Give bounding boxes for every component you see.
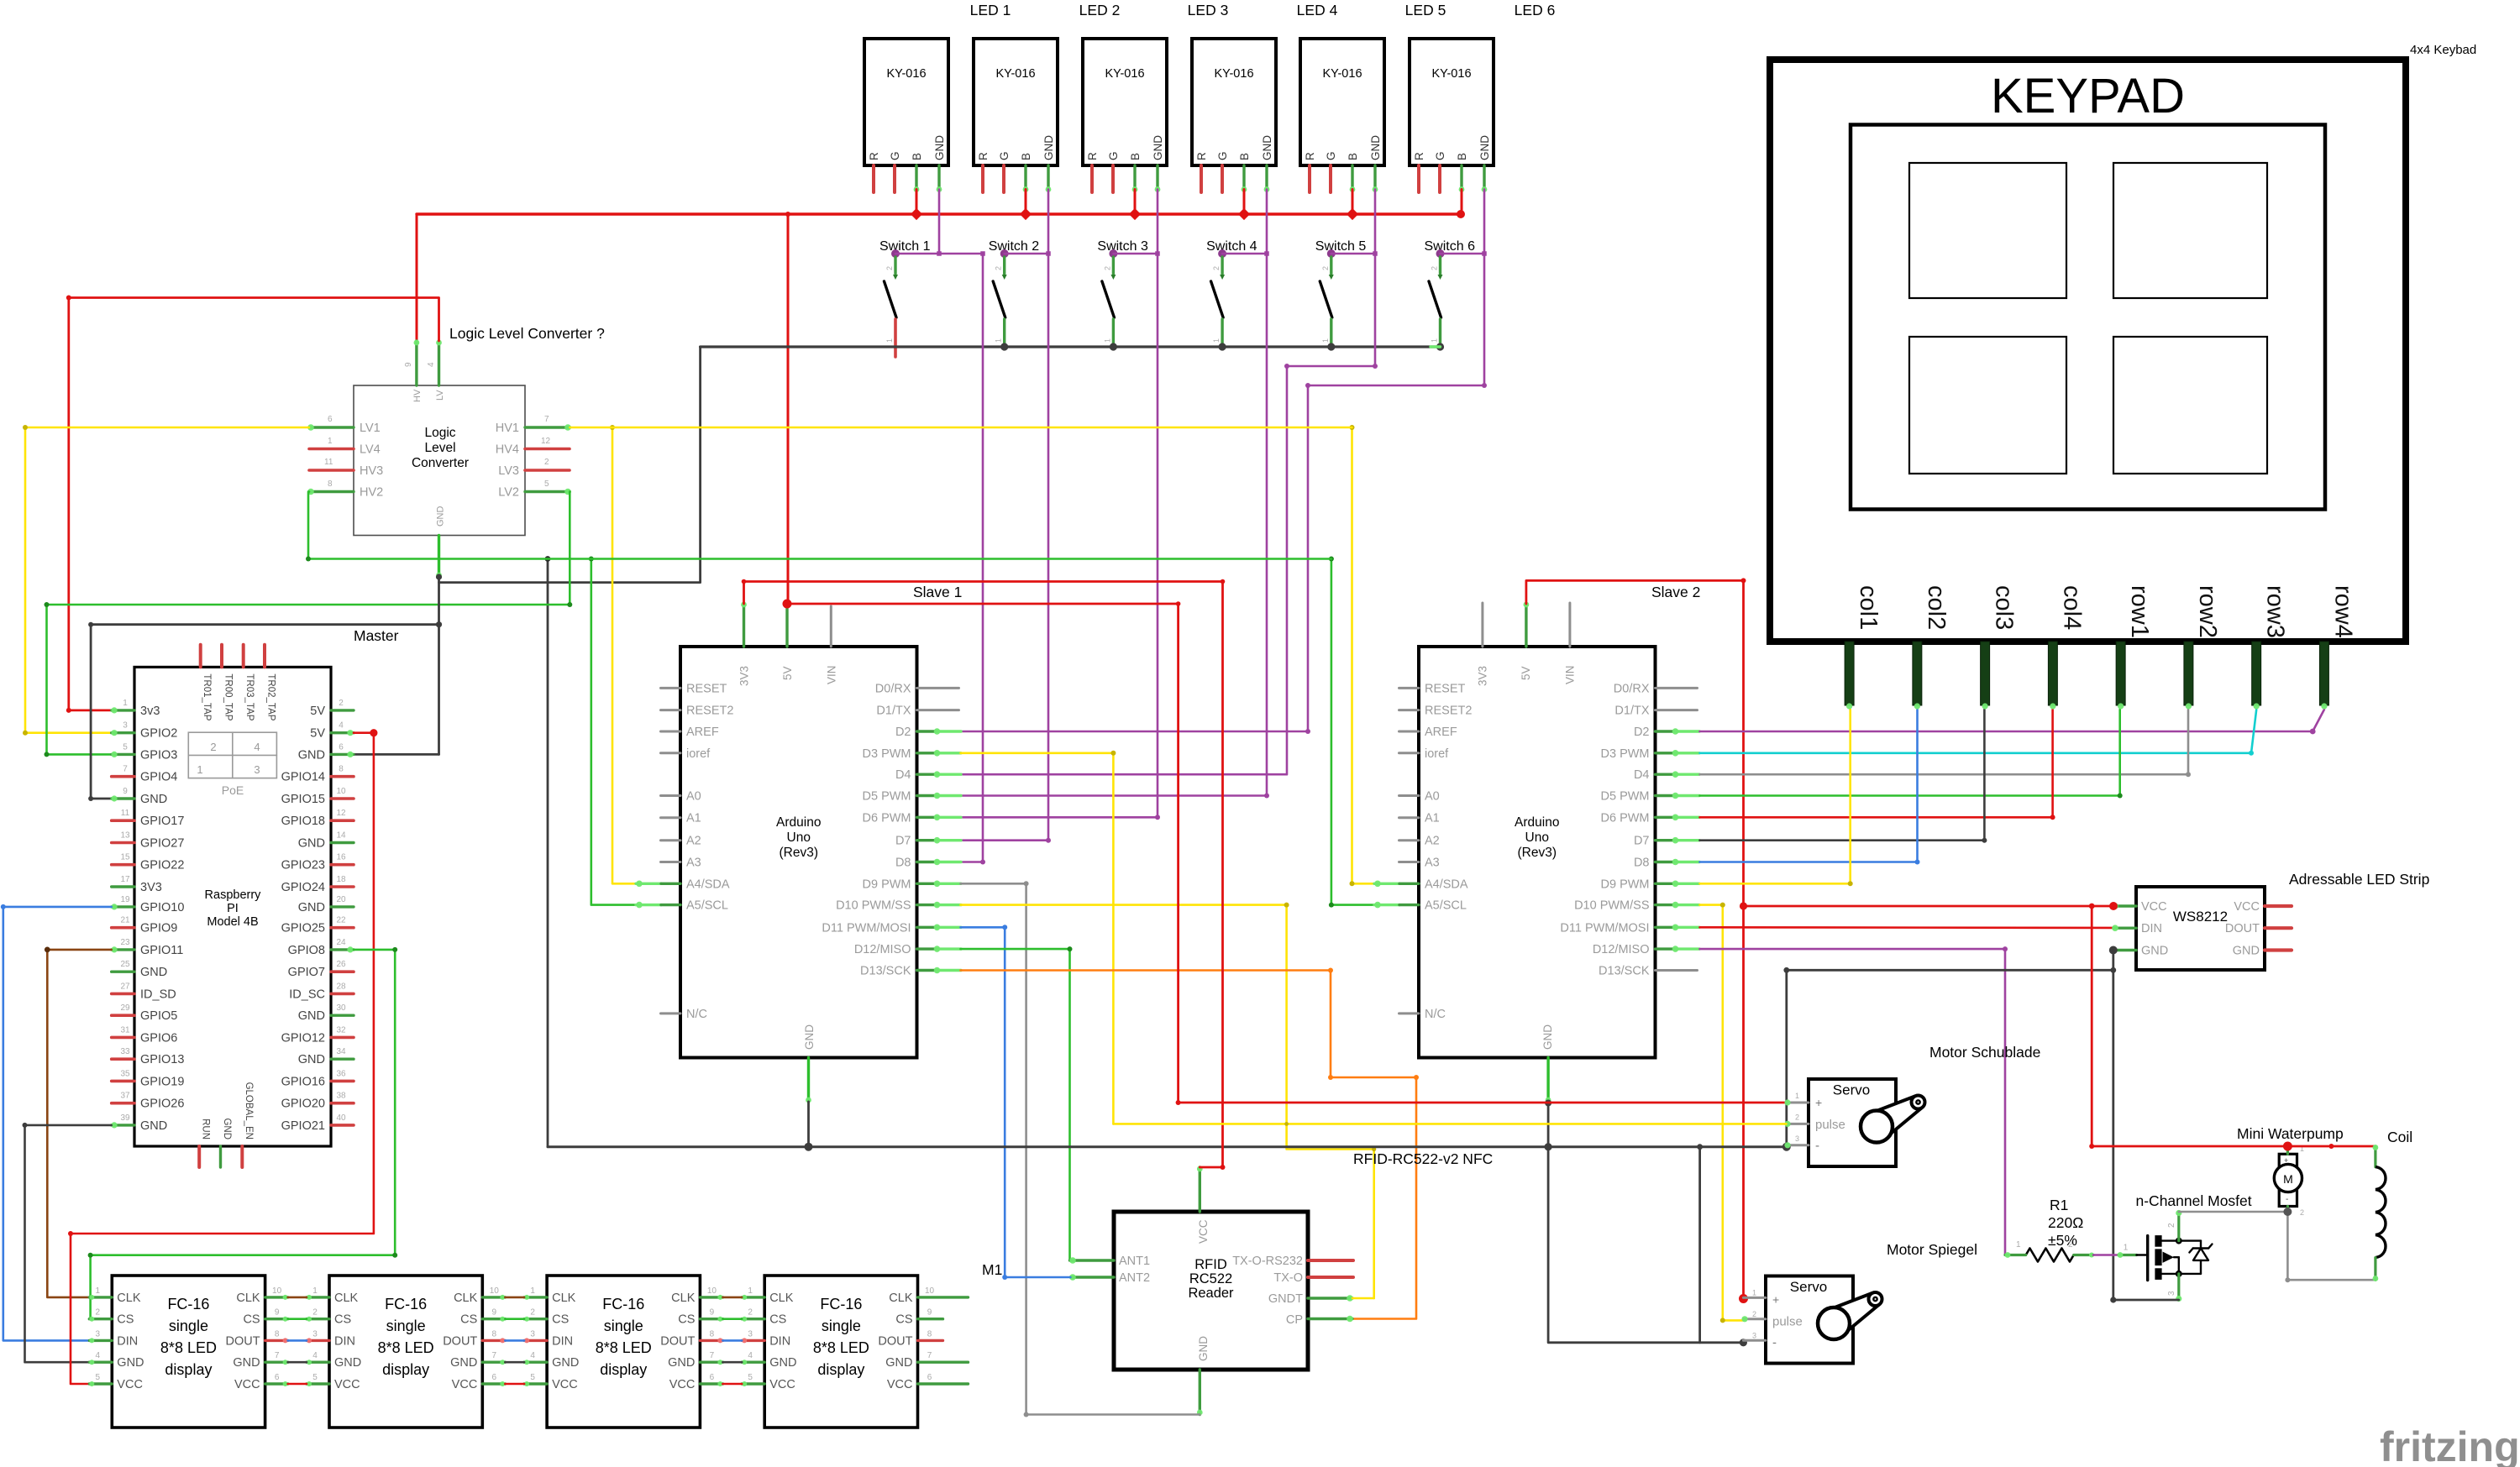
svg-text:GPIO19: GPIO19	[140, 1075, 184, 1088]
svg-text:GPIO16: GPIO16	[281, 1075, 325, 1088]
wire gray WS8212 GND net	[1782, 951, 2116, 1301]
svg-text:GND: GND	[140, 966, 167, 979]
svg-text:DIN: DIN	[334, 1334, 355, 1348]
svg-text:VCC: VCC	[334, 1378, 360, 1391]
svg-text:GND: GND	[1478, 135, 1491, 160]
svg-text:2: 2	[1795, 1113, 1799, 1121]
svg-text:1: 1	[1431, 338, 1439, 343]
LLC HV2 leg	[307, 489, 354, 495]
svg-text:GND: GND	[1152, 135, 1164, 160]
svg-text:GND: GND	[1197, 1336, 1210, 1361]
svg-text:8*8 LED: 8*8 LED	[596, 1339, 652, 1356]
svg-text:pulse: pulse	[1772, 1315, 1803, 1329]
svg-text:CS: CS	[117, 1313, 134, 1327]
svg-text:DIN: DIN	[552, 1334, 573, 1348]
svg-text:3: 3	[254, 763, 260, 776]
svg-text:LED 5: LED 5	[1405, 2, 1446, 18]
svg-text:col1: col1	[1855, 585, 1882, 630]
svg-text:R: R	[1195, 152, 1208, 160]
svg-text:20: 20	[336, 895, 346, 904]
switch S1	[885, 249, 900, 357]
svg-text:D13/SCK: D13/SCK	[1599, 965, 1650, 978]
svg-text:B: B	[911, 153, 923, 160]
switch S6	[1429, 249, 1445, 347]
svg-text:TR01_TAP: TR01_TAP	[202, 673, 212, 720]
RFID RC522 reader U4	[1114, 1212, 1308, 1370]
svg-text:3: 3	[1795, 1134, 1799, 1143]
wire Slave2 D2 purple to row4	[1700, 710, 2324, 734]
Slave2 right legs	[1656, 728, 1700, 970]
Switch 3 label	[1097, 239, 1148, 254]
RFID ANT1 leg	[1069, 1257, 1114, 1264]
svg-text:ioref: ioref	[686, 747, 711, 761]
svg-text:D2: D2	[895, 726, 911, 739]
svg-text:GND: GND	[117, 1356, 144, 1370]
svg-text:4: 4	[339, 721, 344, 731]
Motor Spiegel label	[1887, 1241, 1977, 1258]
wire net5 to Slave1 D4	[961, 190, 1378, 775]
wires between M1.3 and M1.4	[722, 1297, 742, 1384]
servo2 legs	[1741, 1297, 1766, 1340]
LED3 label	[1188, 2, 1229, 18]
svg-text:6: 6	[339, 742, 344, 752]
wire Slave2 D3 cyan to row3	[1700, 710, 2257, 756]
wire red bus to Slave1 5V rail	[787, 214, 790, 604]
servo M2 Motor Schublade	[1795, 1079, 1925, 1166]
svg-text:GND: GND	[1042, 135, 1055, 160]
svg-text:GND: GND	[933, 135, 946, 160]
LED1 label	[970, 2, 1011, 18]
LLC LV3 stub	[525, 469, 570, 472]
svg-text:D7: D7	[895, 835, 911, 848]
svg-text:CS: CS	[460, 1313, 477, 1327]
svg-text:8: 8	[339, 765, 344, 774]
svg-text:(Rev3): (Rev3)	[1517, 846, 1557, 860]
svg-text:1: 1	[312, 1286, 318, 1296]
M1.4 right legs	[918, 1297, 969, 1384]
svg-text:pulse: pulse	[1815, 1118, 1845, 1132]
svg-text:Switch 1: Switch 1	[879, 239, 931, 254]
Mini Waterpump label	[2237, 1125, 2344, 1142]
svg-text:HV: HV	[412, 389, 423, 402]
inductor Coil	[2373, 1145, 2386, 1281]
svg-text:single: single	[169, 1318, 208, 1334]
svg-text:RFID: RFID	[1194, 1257, 1227, 1272]
svg-text:1: 1	[2016, 1240, 2021, 1250]
svg-text:VCC: VCC	[669, 1378, 696, 1391]
svg-text:col4: col4	[2058, 585, 2085, 630]
svg-text:DOUT: DOUT	[2225, 922, 2260, 935]
wire Slave2 D12 purple to R1	[1700, 946, 2008, 1255]
M1.2 right legs	[482, 1295, 505, 1386]
svg-text:GND: GND	[450, 1356, 477, 1370]
keypad pin labels	[1855, 585, 2356, 638]
svg-text:GPIO25: GPIO25	[281, 922, 325, 935]
Switch 5 label	[1315, 239, 1367, 254]
wire Slave2 D7 dark to col3	[1700, 710, 1987, 843]
svg-text:1: 1	[1212, 338, 1221, 343]
svg-text:LV2: LV2	[498, 486, 519, 500]
svg-text:RESET: RESET	[686, 682, 727, 695]
U2 Slave1 D0 D1 stubs	[917, 688, 959, 710]
svg-text:4: 4	[530, 1351, 535, 1360]
svg-text:GND: GND	[1261, 135, 1273, 160]
svg-text:GND: GND	[298, 1009, 325, 1023]
wire LLC LV1 yellow to Pi GPIO2	[23, 425, 309, 736]
svg-text:7: 7	[544, 415, 549, 424]
svg-text:display: display	[382, 1361, 429, 1378]
Slave2 A4 leg	[1374, 881, 1419, 888]
wire Slave2 D8 blue to col2	[1700, 710, 1920, 865]
KY-016 LED module LED5	[1300, 39, 1384, 165]
svg-text:G: G	[998, 151, 1011, 160]
svg-text:3: 3	[123, 721, 128, 731]
LED5 label	[1405, 2, 1446, 18]
Pi bottom stubs	[199, 1146, 242, 1167]
svg-text:8: 8	[328, 479, 333, 489]
svg-text:2: 2	[544, 458, 549, 467]
svg-text:Level: Level	[424, 441, 455, 455]
svg-text:Arduino: Arduino	[1515, 815, 1559, 830]
svg-text:RC522: RC522	[1189, 1271, 1232, 1286]
svg-text:Adressable LED Strip: Adressable LED Strip	[2289, 871, 2429, 888]
svg-text:D13/SCK: D13/SCK	[860, 965, 911, 978]
svg-text:single: single	[604, 1318, 643, 1334]
svg-text:A1: A1	[686, 812, 701, 825]
4x4 keypad	[1770, 60, 2406, 642]
svg-text:2: 2	[2167, 1223, 2176, 1228]
svg-text:3: 3	[312, 1329, 318, 1339]
svg-text:VCC: VCC	[552, 1378, 578, 1391]
FC-16 LED matrix module M1.3	[530, 1276, 717, 1428]
Slave2 5V pin up	[1524, 602, 1530, 647]
svg-text:HV1: HV1	[496, 422, 519, 435]
svg-text:3V3: 3V3	[1477, 666, 1489, 686]
pump pin numbers	[2300, 1145, 2304, 1217]
svg-text:row2: row2	[2194, 585, 2221, 638]
wire net2 to Slave1 D7	[961, 190, 1052, 843]
U3 Slave2 D0 D1 stubs	[1656, 688, 1698, 710]
svg-text:D10 PWM/SS: D10 PWM/SS	[836, 899, 911, 913]
LED6 label	[1515, 2, 1556, 18]
svg-text:GPIO3: GPIO3	[140, 748, 177, 762]
svg-text:Slave 1: Slave 1	[913, 584, 962, 600]
wire Pi GPIO10 blue to FC16 DIN	[1, 904, 112, 1341]
svg-text:GND: GND	[2141, 945, 2168, 958]
wire RFID GNDT yellow tail	[1352, 1297, 1374, 1300]
mosfet source leg down	[2176, 1274, 2181, 1302]
Pi pin legs	[112, 710, 354, 1125]
svg-text:GPIO18: GPIO18	[281, 815, 325, 828]
Switch 6 label	[1425, 239, 1476, 254]
mosfet pin numbers	[2124, 1223, 2176, 1296]
wire ground bus riser to LLC	[545, 556, 551, 1147]
svg-text:5: 5	[123, 742, 128, 752]
svg-text:Uno: Uno	[1525, 830, 1549, 845]
LLC LV2 leg	[525, 489, 571, 495]
svg-text:3V3: 3V3	[738, 666, 751, 686]
svg-text:N/C: N/C	[686, 1008, 707, 1021]
wire LLC LV red to Pi 3v3	[66, 296, 439, 713]
LED4 label	[1297, 2, 1338, 18]
svg-text:M: M	[2283, 1172, 2293, 1186]
svg-text:A4/SDA: A4/SDA	[686, 878, 730, 891]
svg-text:ID_SC: ID_SC	[289, 988, 325, 1001]
svg-text:D11 PWM/MOSI: D11 PWM/MOSI	[1560, 921, 1649, 935]
LLC LV1 leg	[307, 424, 354, 431]
svg-text:G: G	[1434, 151, 1446, 160]
svg-text:R: R	[868, 152, 880, 160]
svg-text:GND: GND	[140, 793, 167, 806]
svg-text:Motor Spiegel: Motor Spiegel	[1887, 1241, 1977, 1258]
svg-text:TR03_TAP: TR03_TAP	[244, 673, 255, 720]
fritzing watermark	[2380, 1423, 2520, 1467]
M1.3 right legs	[700, 1295, 722, 1386]
svg-text:GPIO24: GPIO24	[281, 881, 325, 894]
svg-text:5: 5	[544, 479, 549, 489]
svg-text:D6 PWM: D6 PWM	[1601, 811, 1650, 825]
svg-text:A0: A0	[686, 790, 701, 804]
svg-text:2: 2	[210, 741, 216, 753]
wire Pi 5V red to FC16 VCC	[68, 729, 378, 1384]
svg-text:VCC: VCC	[234, 1378, 260, 1391]
svg-text:CS: CS	[895, 1313, 912, 1327]
svg-text:GPIO22: GPIO22	[140, 859, 184, 872]
svg-text:2: 2	[1321, 266, 1330, 270]
svg-text:32: 32	[336, 1025, 346, 1035]
svg-text:5V: 5V	[310, 705, 325, 718]
RFID GNDT leg	[1308, 1295, 1353, 1302]
WS8212 right stubs	[2265, 906, 2292, 951]
Slave1 GND pin down	[806, 1058, 811, 1103]
svg-text:VCC: VCC	[2141, 900, 2167, 914]
mosfet gate leg	[2118, 1252, 2137, 1258]
svg-text:6: 6	[328, 415, 333, 424]
LED6 pin B wire to 5V bus	[1459, 165, 1465, 214]
svg-text:5: 5	[530, 1373, 535, 1382]
svg-text:9: 9	[275, 1308, 280, 1318]
svg-text:4: 4	[312, 1351, 318, 1360]
svg-text:11: 11	[121, 809, 130, 818]
svg-text:9: 9	[927, 1308, 932, 1318]
svg-text:G: G	[1216, 151, 1229, 160]
pump legs	[2286, 1146, 2289, 1212]
svg-text:DOUT: DOUT	[660, 1334, 695, 1348]
svg-text:B: B	[1347, 153, 1359, 160]
KY-016 LED module LED3	[1083, 39, 1167, 165]
svg-text:38: 38	[336, 1092, 346, 1101]
svg-text:FC-16: FC-16	[602, 1296, 644, 1312]
svg-text:D0/RX: D0/RX	[1614, 682, 1650, 695]
svg-text:8*8 LED: 8*8 LED	[813, 1339, 869, 1356]
Pi terminal tips	[111, 707, 353, 1128]
svg-text:4: 4	[96, 1351, 101, 1360]
wire Slave2 5V red rail	[1526, 578, 1748, 1303]
LED1 pin GND	[937, 165, 942, 192]
svg-text:TX-O: TX-O	[1273, 1271, 1303, 1285]
svg-text:Motor Schublade: Motor Schublade	[1929, 1044, 2040, 1061]
svg-text:GND: GND	[668, 1356, 695, 1370]
svg-text:11: 11	[324, 458, 333, 467]
wire Pi GND9 branch	[88, 622, 438, 801]
svg-text:GPIO20: GPIO20	[281, 1098, 325, 1111]
svg-text:8*8 LED: 8*8 LED	[378, 1339, 434, 1356]
WS8212 left legs	[2112, 903, 2136, 950]
svg-text:35: 35	[120, 1069, 130, 1078]
svg-text:D2: D2	[1634, 726, 1650, 739]
svg-text:Raspberry: Raspberry	[205, 888, 262, 902]
svg-text:GND: GND	[298, 901, 325, 914]
svg-text:4: 4	[748, 1351, 753, 1360]
svg-text:21: 21	[120, 916, 130, 925]
svg-text:ID_SD: ID_SD	[140, 988, 176, 1001]
svg-text:7: 7	[123, 765, 128, 774]
svg-text:GND: GND	[1541, 1024, 1554, 1050]
svg-text:Arduino: Arduino	[776, 815, 821, 830]
svg-text:3: 3	[2167, 1291, 2176, 1296]
svg-text:2: 2	[885, 266, 894, 270]
svg-text:A1: A1	[1425, 812, 1440, 825]
svg-text:RESET: RESET	[1425, 682, 1465, 695]
svg-text:A3: A3	[686, 857, 701, 870]
svg-text:KY-016: KY-016	[995, 67, 1035, 81]
svg-text:GPIO4: GPIO4	[140, 771, 177, 784]
Slave2 3V3 stub	[1481, 603, 1483, 647]
svg-text:LV1: LV1	[360, 422, 381, 435]
svg-text:R: R	[1413, 152, 1425, 160]
svg-text:D6 PWM: D6 PWM	[863, 811, 911, 825]
svg-text:CS: CS	[552, 1313, 569, 1327]
svg-text:7: 7	[927, 1351, 932, 1360]
wire Slave2 D9 yellow to col1	[1700, 710, 1853, 886]
wire Pi GPIO11 brown to FC16 CLK	[45, 947, 112, 1297]
wire Slave1 D9 gray	[961, 881, 1029, 1414]
svg-text:24: 24	[336, 938, 346, 947]
wire red Slave1 rail to RFID VCC	[1200, 582, 1225, 1171]
R1 legs	[2005, 1252, 2094, 1258]
svg-text:GND: GND	[885, 1356, 912, 1370]
svg-text:(Rev3): (Rev3)	[779, 846, 818, 860]
svg-text:2: 2	[339, 699, 344, 708]
svg-text:G: G	[889, 151, 901, 160]
wire Pi GPIO8 green to FC16 CS	[88, 947, 398, 1319]
svg-text:2: 2	[530, 1308, 535, 1318]
svg-text:KY-016: KY-016	[1214, 67, 1253, 81]
svg-text:LV: LV	[435, 390, 445, 401]
svg-text:3: 3	[748, 1329, 753, 1339]
svg-text:GND: GND	[552, 1356, 579, 1370]
Slave2 GND pin down	[1546, 1058, 1551, 1103]
RFID TX-O stub	[1308, 1276, 1353, 1279]
svg-text:KY-016: KY-016	[1431, 67, 1471, 81]
svg-text:D4: D4	[1634, 768, 1650, 782]
KY-016 LED module LED2	[974, 39, 1058, 165]
wire red Slave1 5V to Servo1 plus	[1176, 601, 1787, 1105]
svg-text:D5 PWM: D5 PWM	[863, 790, 911, 804]
svg-text:±5%: ±5%	[2048, 1232, 2077, 1249]
svg-text:9: 9	[404, 362, 413, 367]
wire Slave2 D6 red to col4	[1700, 710, 2055, 820]
svg-text:DOUT: DOUT	[878, 1334, 912, 1348]
svg-text:10: 10	[707, 1286, 717, 1296]
svg-text:22: 22	[336, 916, 346, 925]
svg-text:GPIO14: GPIO14	[281, 771, 325, 784]
svg-text:A4/SDA: A4/SDA	[1425, 878, 1468, 891]
svg-text:33: 33	[120, 1047, 130, 1056]
svg-text:CLK: CLK	[769, 1291, 794, 1305]
svg-text:GND: GND	[298, 748, 325, 762]
svg-text:220Ω: 220Ω	[2048, 1214, 2083, 1231]
svg-text:40: 40	[336, 1113, 346, 1123]
LED2 pin B wire to 5V bus	[1023, 165, 1029, 214]
wire main ground bus	[548, 1145, 1787, 1148]
svg-text:LED 6: LED 6	[1515, 2, 1556, 18]
svg-text:Logic: Logic	[424, 426, 455, 440]
svg-text:29: 29	[120, 1003, 130, 1013]
wire LLC HV2 green SCL bus	[306, 492, 1331, 562]
wire switch bus corner down	[439, 347, 701, 583]
svg-text:R: R	[977, 152, 990, 160]
svg-text:GND: GND	[2233, 945, 2260, 958]
svg-text:8: 8	[492, 1329, 497, 1339]
wire net3 to Slave1 D6	[961, 190, 1161, 820]
KY-016 LED module LED1	[864, 39, 948, 165]
LLC HV pin	[414, 340, 420, 385]
svg-text:31: 31	[120, 1025, 130, 1035]
svg-text:TX-O-RS232: TX-O-RS232	[1232, 1255, 1303, 1268]
svg-text:14: 14	[336, 831, 346, 841]
svg-text:8: 8	[710, 1329, 715, 1339]
wires between M1.2 and M1.3	[505, 1297, 524, 1384]
svg-text:single: single	[386, 1318, 426, 1334]
svg-text:1: 1	[96, 1286, 101, 1296]
svg-text:2: 2	[2068, 1240, 2073, 1250]
LED1 pins R G (unconnected)	[874, 165, 895, 192]
LED4 pins R G (unconnected)	[1201, 165, 1222, 192]
svg-text:9: 9	[710, 1308, 715, 1318]
svg-text:12: 12	[541, 437, 551, 446]
svg-text:34: 34	[336, 1047, 346, 1056]
servo M3 Motor Spiegel	[1752, 1276, 1882, 1364]
svg-text:CLK: CLK	[236, 1291, 260, 1305]
svg-text:VCC: VCC	[452, 1378, 478, 1391]
svg-text:LED 1: LED 1	[970, 2, 1011, 18]
LED5 pin GND	[1373, 165, 1378, 192]
svg-text:VCC: VCC	[1197, 1219, 1210, 1244]
wire Slave1 D10 yellow	[961, 903, 1377, 1298]
Slave 1 label	[913, 584, 962, 600]
svg-text:Logic Level Converter ?: Logic Level Converter ?	[449, 325, 605, 342]
svg-text:Switch 4: Switch 4	[1206, 239, 1257, 254]
LLC label	[449, 325, 605, 342]
svg-text:D12/MISO: D12/MISO	[854, 943, 911, 956]
M1.3 left legs	[524, 1295, 547, 1386]
wire ground bus drop right	[1697, 1144, 1703, 1343]
svg-text:GND: GND	[769, 1356, 796, 1370]
svg-text:A3: A3	[1425, 857, 1440, 870]
svg-text:4: 4	[254, 741, 260, 753]
svg-text:10: 10	[272, 1286, 282, 1296]
mosfet drain leg up	[2176, 1210, 2181, 1241]
svg-text:6: 6	[927, 1373, 932, 1382]
LED6 pins R G (unconnected)	[1419, 165, 1440, 192]
svg-text:ioref: ioref	[1425, 747, 1449, 761]
svg-text:B: B	[1020, 153, 1032, 160]
svg-text:KY-016: KY-016	[1322, 67, 1362, 81]
svg-text:5: 5	[312, 1373, 318, 1382]
svg-text:GPIO13: GPIO13	[140, 1053, 184, 1066]
svg-text:5: 5	[748, 1373, 753, 1382]
